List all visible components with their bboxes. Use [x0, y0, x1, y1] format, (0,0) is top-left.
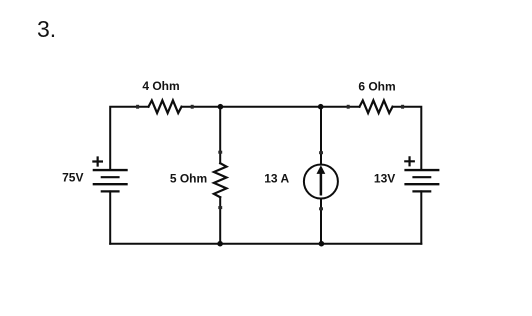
wire branch 2 lower (current source I1 to bottom node D)	[320, 199, 322, 244]
battery V1 short plate 2	[101, 176, 120, 178]
terminal nub R1 right	[191, 105, 194, 109]
wire right-bottom segment (battery V2 bottom to bottom-right corner)	[420, 191, 422, 243]
wire branch 2 upper (top node B down to current source I1)	[320, 107, 322, 165]
svg-text:6 Ohm: 6 Ohm	[358, 79, 395, 93]
junction node A (top, branch 1)	[218, 104, 224, 110]
junction node D (bottom, branch 2)	[319, 241, 325, 247]
resistor R2 6 Ohm zigzag	[360, 100, 393, 113]
wire branch 1 lower (R3 bottom lead to bottom node C)	[219, 197, 221, 244]
battery V2 long plate (top, positive)	[404, 169, 439, 171]
wire bottom segment	[110, 243, 421, 245]
terminal nub I1 bottom	[319, 207, 323, 210]
battery V1 short plate 4 (bottom, negative)	[101, 190, 120, 192]
battery V1 plus sign	[92, 156, 103, 166]
wire top-left segment (top-left corner to R1 left lead)	[110, 107, 148, 170]
terminal nub R2 right	[401, 105, 404, 109]
resistor R1 4 Ohm zigzag	[149, 100, 182, 113]
svg-text:13V: 13V	[374, 171, 395, 185]
svg-text:3.: 3.	[37, 16, 56, 42]
wire left-bottom segment (bottom-left corner up to battery V1 bottom)	[109, 191, 111, 243]
current source I1 arrow shaft	[320, 173, 323, 196]
terminal nub R3 bottom	[218, 206, 222, 209]
current source I1 circle	[304, 165, 338, 199]
resistor R3 5 Ohm zigzag (vertical)	[214, 163, 227, 197]
svg-text:4 Ohm: 4 Ohm	[142, 79, 179, 93]
wire top-right segment (R2 right lead to top-right corner, down to battery V2)	[393, 107, 422, 170]
battery V1 long plate (top, positive)	[93, 169, 128, 171]
svg-text:13 A: 13 A	[264, 171, 289, 185]
battery V2 short plate 2	[412, 176, 431, 178]
battery V2 long plate 3	[404, 183, 439, 185]
terminal nub I1 top	[319, 151, 323, 154]
terminal nub R3 top	[218, 151, 222, 154]
svg-text:75V: 75V	[62, 170, 83, 184]
wire top middle segment (R1 right lead to R2 left lead)	[182, 106, 360, 108]
junction node B (top, branch 2)	[318, 104, 324, 110]
terminal nub R1 left	[136, 105, 139, 109]
battery V2 plus sign	[404, 156, 415, 166]
wire branch 1 upper (top node A down to R3 top lead)	[219, 107, 221, 164]
current source I1 arrow head	[317, 165, 326, 174]
junction node C (bottom, branch 1)	[217, 241, 223, 247]
battery V2 short plate 4 (bottom, negative)	[412, 190, 431, 192]
terminal nub R2 left	[347, 105, 350, 109]
svg-text:5 Ohm: 5 Ohm	[170, 171, 207, 185]
battery V1 long plate 3	[93, 183, 128, 185]
